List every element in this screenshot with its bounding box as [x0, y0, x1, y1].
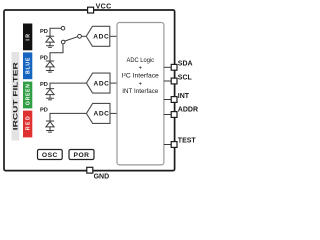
svg-text:+: +: [138, 80, 142, 87]
svg-text:+: +: [138, 65, 142, 72]
svg-text:PD: PD: [40, 108, 48, 114]
ADC3: [86, 103, 110, 123]
wire ADC2 to logic block: [110, 82, 117, 84]
logic block U1 (ADC Logic / I2C / INT): [117, 23, 164, 165]
IR cut filter bar: [12, 52, 20, 141]
svg-text:PD: PD: [40, 29, 48, 35]
ground (PD1): [46, 46, 54, 48]
switch throw contact A: [61, 26, 65, 30]
svg-text:POR: POR: [74, 152, 90, 159]
wire block to SDA: [164, 66, 171, 68]
oscillator OSC: [38, 150, 63, 160]
wire switch pole to ADC1: [81, 35, 86, 37]
wire block to ADDR: [164, 114, 171, 116]
pin ADDR: [171, 106, 198, 117]
wire PD2 to switch throw B: [50, 44, 63, 61]
svg-text:RED: RED: [26, 116, 32, 130]
photodiode PD4 (RED): [46, 121, 54, 130]
svg-text:ADDR: ADDR: [178, 106, 198, 113]
svg-text:BLUE: BLUE: [26, 57, 32, 74]
switch S1 arm: [65, 37, 78, 41]
wire block to TEST: [164, 144, 171, 146]
switch throw contact B: [61, 40, 65, 44]
svg-text:GREEN: GREEN: [26, 84, 32, 105]
photodiode PD2 (BLUE): [46, 61, 54, 70]
svg-text:GND: GND: [94, 174, 110, 181]
ground (PD4): [46, 131, 54, 133]
ADC1: [86, 26, 110, 46]
pin SCL: [171, 74, 192, 84]
chip outer border: [4, 10, 175, 171]
svg-text:ADC: ADC: [93, 111, 109, 118]
pin VCC: [88, 4, 112, 13]
wire block to INT: [164, 99, 171, 101]
svg-text:ADC Logic: ADC Logic: [127, 57, 155, 64]
filter RED: [23, 111, 32, 138]
wire block to SCL: [164, 80, 171, 82]
wire PD4 to ADC3: [50, 113, 86, 121]
pin INT: [171, 93, 190, 103]
svg-text:TEST: TEST: [178, 137, 197, 144]
svg-text:IR: IR: [26, 34, 32, 41]
svg-text:SCL: SCL: [178, 74, 193, 81]
ground (PD3): [46, 98, 54, 100]
svg-text:OSC: OSC: [42, 152, 58, 159]
wire PD3 to ADC2: [50, 83, 86, 89]
svg-text:I²C Interface: I²C Interface: [122, 72, 160, 79]
svg-text:IRCUT FILTER: IRCUT FILTER: [12, 61, 19, 130]
svg-text:SDA: SDA: [178, 61, 193, 68]
filter BLUE: [23, 52, 32, 79]
pin TEST: [171, 137, 196, 147]
pin GND: [87, 167, 109, 180]
wire PD1 to switch throw A: [50, 28, 61, 36]
switch pole contact C: [78, 34, 82, 38]
photodiode PD3 (GREEN): [46, 89, 54, 98]
photodiode PD1 (IR): [46, 36, 54, 45]
svg-text:INT: INT: [178, 93, 190, 100]
ADC2: [86, 73, 110, 93]
svg-text:ADC: ADC: [93, 80, 109, 87]
filter GREEN: [23, 82, 32, 109]
svg-text:VCC: VCC: [96, 4, 112, 11]
filter IR: [23, 24, 32, 51]
wire ADC1 to logic block: [110, 35, 117, 37]
svg-text:PD: PD: [40, 82, 48, 88]
ground (PD2): [46, 71, 54, 73]
svg-text:PD: PD: [40, 56, 48, 62]
pin SDA: [171, 61, 192, 71]
power-on-reset POR: [69, 150, 94, 160]
wire ADC3 to logic block: [110, 112, 117, 114]
svg-text:INT Interface: INT Interface: [122, 88, 159, 95]
svg-text:ADC: ADC: [93, 34, 109, 41]
